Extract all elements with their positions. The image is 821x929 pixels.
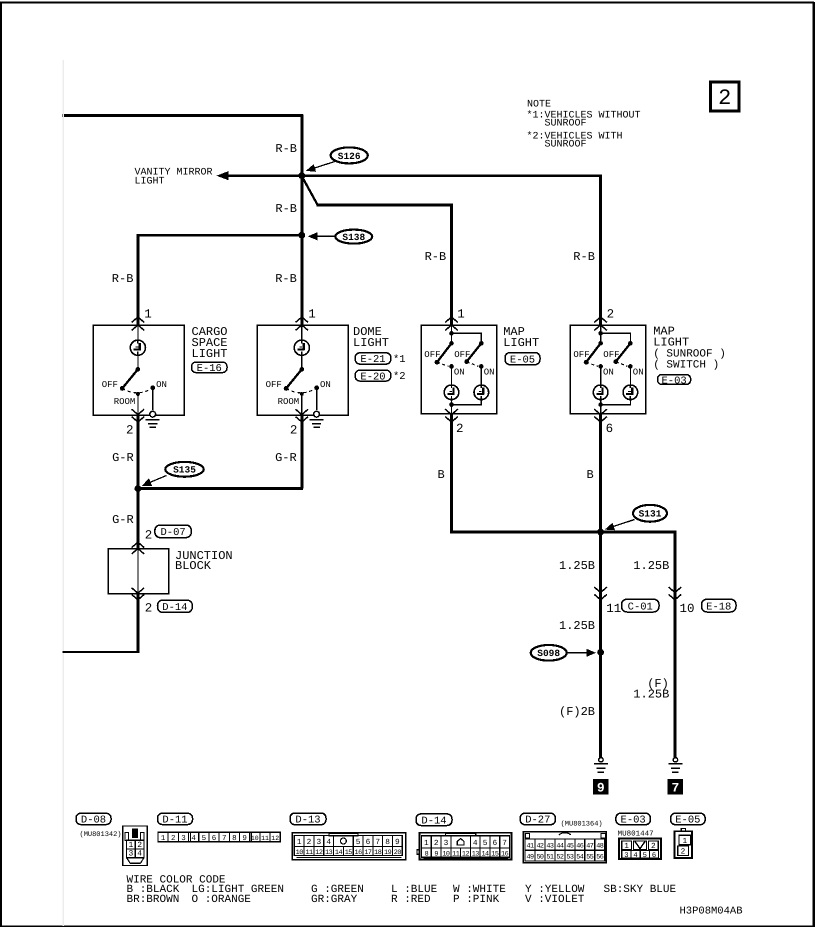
svg-text:5: 5 [356,838,361,847]
pin 2 connector D-14 [145,600,193,615]
lamp unit: map light E-05 [421,307,496,436]
wire: dome light feed drop R-B [300,115,303,327]
connector label E-05 [671,813,706,827]
wire: map light (sunroof switch) feed drop R-B [599,175,602,327]
svg-text:11: 11 [606,602,621,616]
svg-text:LIGHT: LIGHT [192,347,228,361]
splice symbol S131 [605,505,667,530]
junction block [108,542,232,600]
svg-text:16: 16 [355,849,363,857]
label: MAP LIGHT E-05 [503,325,540,366]
svg-text:1: 1 [624,842,629,851]
svg-text:ON: ON [484,367,495,377]
svg-text:17: 17 [364,849,372,857]
wire: diagonal jog from S126 junction [302,176,318,205]
svg-text:1: 1 [297,838,302,847]
svg-text:44: 44 [556,842,563,850]
svg-text:(MU801364): (MU801364) [561,819,603,828]
svg-text:E-03: E-03 [621,815,646,827]
svg-text:B: B [587,468,594,482]
svg-text:OFF: OFF [573,350,589,360]
svg-text:52: 52 [556,853,563,861]
node: splice S098 [597,649,604,656]
svg-text:SB:SKY BLUE: SB:SKY BLUE [604,884,677,896]
svg-text:( SWITCH ): ( SWITCH ) [653,359,719,371]
svg-text:7: 7 [222,835,227,843]
node: splice S126 [298,172,305,179]
splice symbol S098 [531,645,596,661]
svg-text:D-14: D-14 [421,815,446,827]
svg-text:SUNROOF: SUNROOF [545,118,587,129]
svg-text:11: 11 [452,851,460,859]
label: B wire colors [438,468,594,482]
svg-text:2: 2 [171,834,176,843]
svg-text:11: 11 [261,835,269,842]
svg-text:9: 9 [597,781,605,796]
svg-text:6: 6 [366,838,371,847]
svg-text:H3P08M04AB: H3P08M04AB [680,906,743,918]
svg-text:53: 53 [566,853,573,861]
svg-text:8: 8 [425,851,429,859]
svg-text:OFF: OFF [424,350,440,360]
wire: map light output B [452,414,601,532]
svg-text:1: 1 [161,835,166,843]
svg-text:42: 42 [536,842,543,850]
connector label E-03 [616,813,654,838]
svg-text:S098: S098 [537,648,560,659]
svg-text:(F)2B: (F)2B [559,705,595,719]
svg-text:48: 48 [596,842,603,850]
svg-text:49: 49 [526,853,533,861]
svg-text:12: 12 [315,849,323,857]
svg-text:1.25B: 1.25B [633,688,669,702]
svg-text:9: 9 [395,838,400,847]
svg-text:11: 11 [305,849,313,857]
svg-text:ON: ON [156,380,167,390]
svg-text:S135: S135 [173,465,196,476]
svg-text:50: 50 [536,853,543,861]
svg-text:1: 1 [308,307,316,321]
svg-text:2: 2 [681,848,686,857]
svg-text:4: 4 [326,838,331,847]
svg-text:ON: ON [454,367,465,377]
node: splice S135 [135,485,142,492]
svg-text:O :ORANGE: O :ORANGE [192,894,252,906]
svg-text:1: 1 [144,307,152,321]
splice symbol S135 [142,462,204,486]
page number box 2 [711,82,740,111]
wire: dome light output G-R [300,414,303,489]
svg-text:4: 4 [473,839,478,848]
lamp unit: cargo space light E-16 [93,307,184,437]
svg-text:ROOM: ROOM [278,397,300,407]
svg-text:MU801447: MU801447 [618,829,654,838]
svg-text:19: 19 [384,849,392,857]
connector label D-11 [158,813,193,826]
connector face E-03 [619,838,661,859]
svg-text:5: 5 [202,835,207,843]
svg-text:LIGHT: LIGHT [653,336,689,350]
wire: top R-B bus [62,114,303,117]
svg-text:G-R: G-R [112,513,134,527]
svg-text:GR:GRAY: GR:GRAY [311,894,358,906]
connector label D-27 [520,813,602,828]
svg-text:LIGHT: LIGHT [135,177,165,188]
svg-text:13: 13 [325,849,333,857]
svg-text:12: 12 [462,851,470,859]
pin 10 connector E-18 [680,599,737,616]
svg-text:18: 18 [374,849,382,857]
svg-text:P :PINK: P :PINK [453,894,500,906]
svg-text:2: 2 [145,529,153,543]
svg-text:13: 13 [472,851,480,859]
svg-text:OFF: OFF [454,350,470,360]
svg-text:4: 4 [191,835,196,843]
lamp unit: dome light [257,307,348,437]
pin 2 connector D-07 [145,525,191,543]
svg-text:2: 2 [607,307,615,321]
svg-text:6: 6 [492,839,497,848]
node: splice S138 [298,232,305,239]
svg-text:D-07: D-07 [160,527,185,539]
svg-text:20: 20 [394,849,402,857]
label: wire colors R-B [112,142,595,286]
svg-text:ON: ON [633,367,644,377]
svg-text:1.25B: 1.25B [559,559,595,573]
svg-text:E-16: E-16 [197,363,222,375]
svg-text:G-R: G-R [275,451,297,465]
wire: S135 bus G-R [137,487,304,490]
svg-text:OFF: OFF [603,350,619,360]
connector face D-08 [123,826,147,866]
wire: ground run 1.25B left [599,532,602,758]
svg-text:E-18: E-18 [706,601,731,613]
svg-text:1: 1 [682,837,687,846]
svg-text:16: 16 [501,851,509,859]
connector label D-14 [416,814,452,828]
svg-text:R-B: R-B [425,250,447,264]
wire: junction block feed G-R [136,487,139,548]
ground: body ground 7 [668,758,683,796]
node: splice S131 [597,529,604,536]
svg-text:E-21: E-21 [360,354,385,366]
svg-text:1.25B: 1.25B [559,619,595,633]
svg-text:6: 6 [212,834,217,843]
svg-text:LIGHT: LIGHT [353,336,389,350]
svg-text:6: 6 [606,422,614,436]
svg-text:43: 43 [546,842,553,850]
wire: cargo light feed drop R-B [136,234,139,326]
drawing number [680,906,743,918]
label: (F) 1.25B right [633,677,669,702]
svg-text:2: 2 [290,423,298,437]
svg-text:3: 3 [317,838,322,847]
svg-text:10: 10 [680,602,695,616]
wire: map light feed horizontal R-B [317,203,453,206]
svg-text:NOTE: NOTE [527,100,551,111]
svg-text:1: 1 [457,307,465,321]
svg-text:7: 7 [502,839,507,848]
svg-text:2: 2 [307,838,312,847]
svg-text:4: 4 [633,852,637,860]
svg-text:55: 55 [586,853,593,861]
connector face D-27 [523,832,606,863]
svg-text:2: 2 [718,86,731,111]
connector label D-08 [76,813,122,839]
svg-text:1: 1 [424,839,429,848]
splice symbol S138 [308,230,372,244]
connector face D-14 [417,833,512,860]
svg-text:9: 9 [242,834,247,843]
svg-text:6: 6 [652,852,656,860]
svg-text:R-B: R-B [275,272,297,286]
wire: junction block output [63,594,140,652]
svg-text:(MU801342): (MU801342) [80,830,122,839]
svg-text:56: 56 [596,853,603,861]
connector face E-05 [675,829,692,858]
svg-text:2: 2 [126,423,134,437]
svg-text:8: 8 [232,834,237,843]
label: CARGO SPACE LIGHT E-16 [192,325,228,375]
svg-text:E-03: E-03 [661,375,686,387]
svg-text:G-R: G-R [112,451,134,465]
svg-text:5: 5 [483,839,488,848]
svg-text:7: 7 [671,781,679,796]
svg-text:1.25B: 1.25B [633,559,669,573]
svg-text:OFF: OFF [102,380,118,390]
svg-text:R :RED: R :RED [391,894,431,906]
svg-text:LIGHT: LIGHT [503,336,539,350]
label: VANITY MIRROR LIGHT [135,167,213,187]
svg-text:D-08: D-08 [81,815,106,827]
svg-text:E-20: E-20 [360,371,385,383]
svg-text:2: 2 [456,422,464,436]
svg-text:3: 3 [181,834,186,843]
wire color code legend [127,874,677,906]
svg-text:15: 15 [345,849,353,857]
svg-text:SUNROOF: SUNROOF [545,139,587,150]
svg-text:8: 8 [385,838,390,847]
svg-text:R-B: R-B [275,202,297,216]
wire: faint left return line [62,60,64,926]
label: DOME LIGHT E-21/E-20 [353,325,406,383]
svg-text:*1: *1 [393,354,406,366]
svg-text:3: 3 [444,839,449,848]
svg-text:E-05: E-05 [510,354,535,366]
svg-text:S138: S138 [342,232,365,243]
svg-text:R-B: R-B [275,142,297,156]
svg-text:BLOCK: BLOCK [175,559,212,573]
svg-text:*2: *2 [393,371,406,383]
svg-text:2: 2 [651,842,656,851]
svg-text:2: 2 [145,602,153,616]
svg-text:B: B [438,468,445,482]
wire: sunroof map light output B [599,414,602,532]
svg-text:2: 2 [434,839,439,848]
svg-text:3: 3 [129,850,134,859]
svg-text:51: 51 [546,853,553,861]
svg-text:3: 3 [624,852,628,860]
svg-text:46: 46 [576,842,583,850]
svg-text:9: 9 [434,851,438,859]
svg-text:V :VIOLET: V :VIOLET [525,894,585,906]
harness crossing chevrons C-01 / E-18 [594,587,681,600]
svg-text:D-13: D-13 [295,815,320,827]
splice symbol S126 [306,147,368,171]
svg-text:14: 14 [481,851,489,859]
svg-text:D-11: D-11 [162,815,187,827]
pin 11 connector C-01 [606,599,659,616]
svg-text:10: 10 [251,835,259,842]
svg-text:ROOM: ROOM [114,397,136,407]
svg-text:C-01: C-01 [628,601,653,613]
wire: map light feed drop R-B [450,204,453,326]
svg-text:R-B: R-B [573,250,595,264]
svg-text:4: 4 [137,850,142,859]
ground: body ground 9 [593,758,608,796]
wire: cargo light output G-R [136,414,139,490]
svg-text:10: 10 [442,851,450,859]
svg-text:S126: S126 [338,151,361,162]
svg-text:5: 5 [643,852,647,860]
svg-text:7: 7 [375,838,380,847]
svg-text:10: 10 [296,849,304,857]
svg-text:S131: S131 [639,509,662,520]
svg-text:14: 14 [335,849,343,857]
svg-text:41: 41 [526,842,533,850]
connector face D-13 [292,833,406,860]
connector label D-13 [290,813,326,827]
svg-text:12: 12 [271,835,279,842]
label: (F)2B left [559,705,595,719]
svg-text:D-27: D-27 [525,815,550,827]
svg-text:R-B: R-B [112,272,134,286]
svg-text:E-05: E-05 [675,815,700,827]
label: MAP LIGHT (SUNROOF SWITCH) E-03 [653,325,726,388]
connector face D-11 [158,832,280,843]
wire: vanity mirror light branch with arrow [217,171,602,180]
svg-text:D-14: D-14 [162,602,187,614]
svg-text:47: 47 [586,842,593,850]
note text [527,100,641,151]
wire: branch to right ground 1.25B [601,532,675,758]
label: 1.25B wire colors [559,559,669,633]
lamp unit: map light (sunroof switch) E-03 [570,307,645,436]
label: G-R wire colors [112,451,297,527]
svg-text:54: 54 [576,853,583,861]
svg-text:BR:BROWN: BR:BROWN [127,894,180,906]
svg-text:15: 15 [491,851,499,859]
svg-text:OFF: OFF [266,380,282,390]
wire: S138 bus to cargo light [137,234,303,237]
svg-text:45: 45 [566,842,573,850]
svg-text:ON: ON [320,380,331,390]
svg-text:ON: ON [603,367,614,377]
